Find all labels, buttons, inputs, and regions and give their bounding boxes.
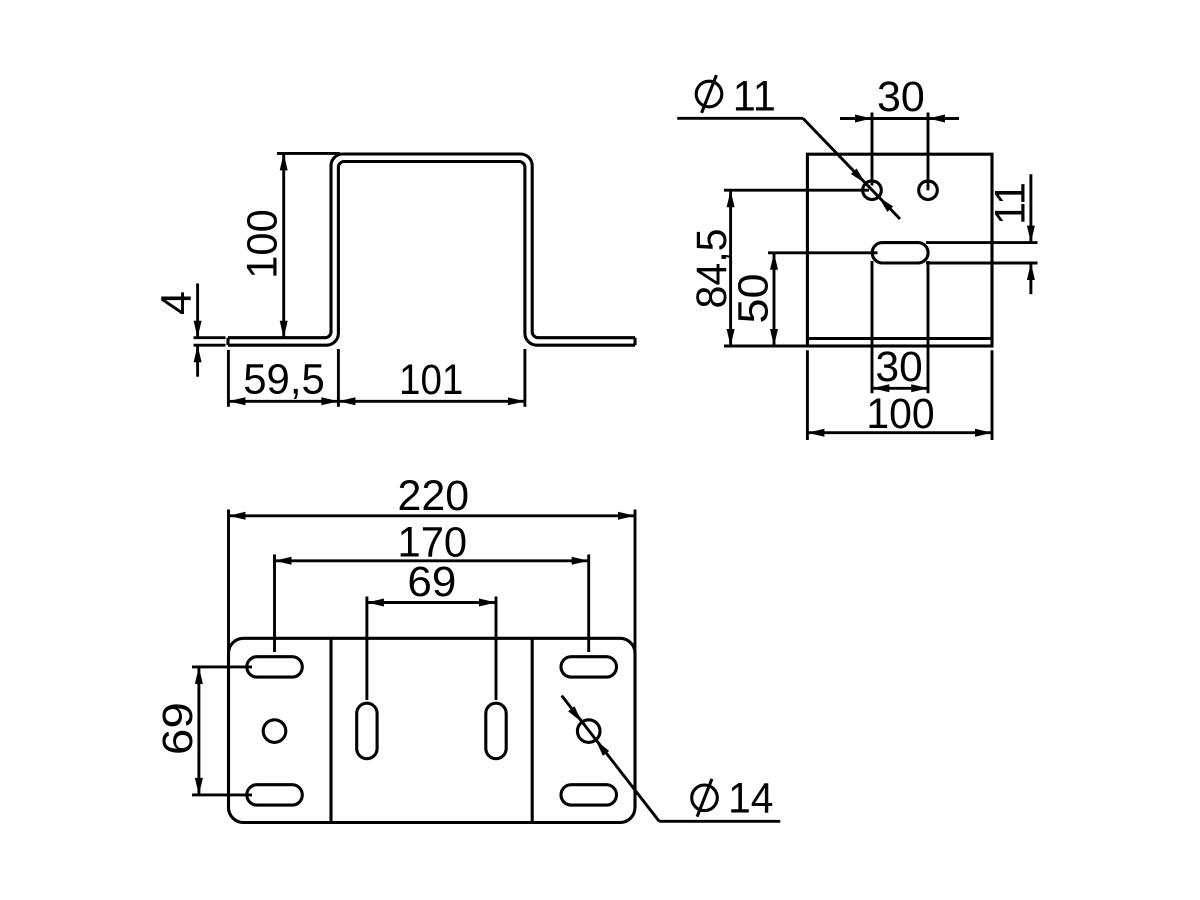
svg-text:30: 30	[877, 73, 925, 121]
svg-text:11: 11	[733, 72, 776, 120]
svg-text:14: 14	[728, 774, 773, 822]
svg-text:30: 30	[876, 343, 923, 391]
svg-text:50: 50	[729, 274, 777, 324]
svg-text:100: 100	[866, 390, 934, 438]
svg-text:100: 100	[239, 209, 287, 279]
svg-text:69: 69	[407, 558, 456, 606]
svg-text:220: 220	[398, 472, 470, 520]
svg-text:59,5: 59,5	[243, 356, 325, 404]
svg-text:101: 101	[399, 356, 463, 404]
svg-text:11: 11	[986, 182, 1034, 225]
svg-text:69: 69	[154, 702, 202, 755]
svg-text:4: 4	[152, 291, 200, 315]
